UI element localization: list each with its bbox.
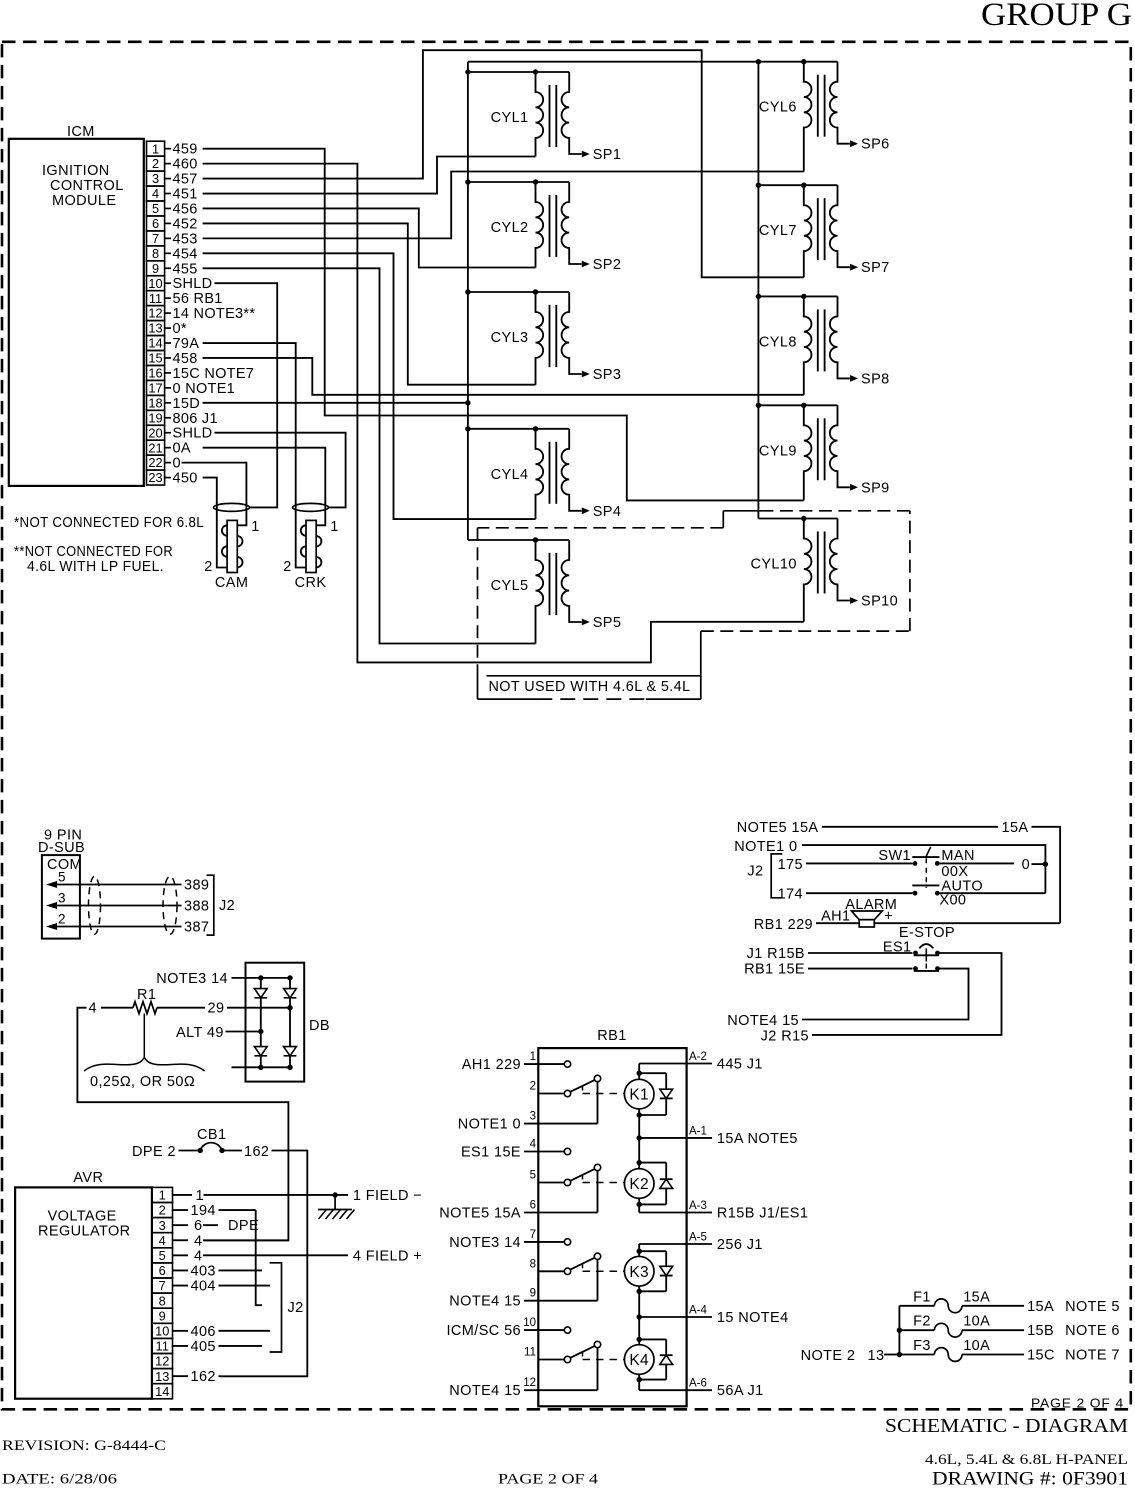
svg-text:J1 R15B: J1 R15B: [747, 946, 805, 962]
svg-text:14: 14: [155, 1384, 169, 1399]
svg-text:8: 8: [152, 246, 159, 261]
svg-text:12: 12: [523, 1377, 536, 1389]
AVR pin 1: [152, 1187, 173, 1202]
svg-text:3: 3: [159, 1218, 166, 1233]
svg-text:2: 2: [152, 156, 159, 171]
RB1 terminal A-3 net R15B J1/ES1: [639, 1200, 808, 1222]
wire 458 ICM pin15 to CYL8: [203, 358, 804, 395]
svg-text:1: 1: [159, 1188, 166, 1203]
svg-text:4: 4: [530, 1139, 537, 1151]
ignition coil CYL2: [491, 182, 622, 273]
svg-text:SP9: SP9: [861, 480, 890, 496]
sensor CAM: [204, 503, 259, 592]
wire 450 ICM pin23 to CAM 2: [203, 478, 217, 504]
svg-text:453: 453: [173, 231, 198, 247]
svg-text:NOTE5 15A: NOTE5 15A: [439, 1206, 521, 1222]
svg-text:SW1: SW1: [878, 848, 911, 864]
AVR pin 13: [152, 1369, 173, 1384]
svg-text:56 RB1: 56 RB1: [173, 291, 223, 307]
svg-text:4: 4: [194, 1233, 202, 1249]
svg-text:4: 4: [159, 1233, 166, 1248]
svg-text:RB1 15E: RB1 15E: [744, 962, 805, 978]
svg-text:162: 162: [191, 1369, 216, 1385]
RB1 pin 1: [462, 1051, 565, 1073]
wire 451 ICM pin4 to CYL1: [203, 157, 536, 194]
wire coil CYL6 top feed: [756, 59, 838, 64]
ICM pin 11: [147, 291, 223, 307]
svg-text:D-SUB: D-SUB: [38, 840, 85, 856]
svg-text:5: 5: [152, 201, 159, 216]
svg-text:SP5: SP5: [593, 615, 622, 631]
AVR pin 9: [152, 1308, 173, 1323]
svg-text:NOTE4 15: NOTE4 15: [727, 1013, 799, 1029]
svg-text:8: 8: [159, 1293, 166, 1308]
svg-text:256 J1: 256 J1: [717, 1237, 763, 1253]
svg-text:NOTE1 0: NOTE1 0: [734, 839, 797, 855]
ICM pin 15: [147, 351, 198, 367]
module AVR voltage regulator: [15, 1170, 152, 1399]
svg-text:J2: J2: [219, 898, 235, 914]
svg-text:79A: 79A: [173, 336, 200, 352]
svg-text:SCHEMATIC - DIAGRAM: SCHEMATIC - DIAGRAM: [885, 1415, 1128, 1437]
svg-text:1: 1: [530, 1051, 536, 1063]
wire SW1 MAN to net 0: [940, 857, 1046, 873]
diode DB at 260.8,993.2: [254, 989, 267, 998]
svg-text:17: 17: [148, 380, 162, 395]
svg-text:175: 175: [778, 857, 803, 873]
svg-text:ICM: ICM: [67, 124, 95, 140]
wire DB bottom row: [232, 1065, 293, 1070]
svg-text:1: 1: [196, 1188, 204, 1204]
svg-text:K4: K4: [629, 1352, 649, 1369]
svg-text:2: 2: [283, 559, 291, 575]
relay coil K4: [624, 1337, 654, 1383]
svg-text:NOTE5 15A: NOTE5 15A: [737, 820, 819, 836]
svg-text:20: 20: [148, 425, 162, 440]
svg-text:F3: F3: [913, 1338, 931, 1354]
contact terminal row 1330.1: [564, 1327, 570, 1333]
wire 15D power bus left bank: [467, 62, 469, 540]
svg-text:460: 460: [173, 157, 198, 173]
svg-text:162: 162: [244, 1144, 269, 1160]
svg-text:0,25Ω, OR 50Ω: 0,25Ω, OR 50Ω: [90, 1074, 195, 1090]
svg-text:NOTE4 15: NOTE4 15: [449, 1383, 521, 1399]
svg-text:459: 459: [173, 142, 198, 158]
svg-text:15A NOTE5: 15A NOTE5: [717, 1131, 798, 1147]
module ICM ignition control module: [9, 124, 144, 486]
ICM pin 3: [147, 171, 198, 187]
relay coil K1: [624, 1071, 654, 1118]
svg-text:8: 8: [530, 1258, 536, 1270]
wire AVR pin4 net 4: [173, 1233, 288, 1249]
svg-text:6: 6: [194, 1218, 202, 1234]
svg-text:RB1 229: RB1 229: [754, 917, 813, 933]
svg-text:16: 16: [148, 366, 162, 381]
wire CAM terminal 1 lead: [237, 503, 246, 526]
wire 455 ICM pin9 to CYL5: [203, 268, 536, 643]
svg-text:56A J1: 56A J1: [717, 1383, 764, 1399]
RB1 terminal A-2 net 445 J1: [639, 1051, 763, 1073]
wire 452 ICM pin6 to CYL3: [203, 223, 536, 384]
svg-text:A-2: A-2: [689, 1051, 707, 1063]
svg-text:388: 388: [184, 899, 209, 915]
contact terminal row 1151.5: [564, 1148, 570, 1154]
svg-text:9: 9: [159, 1308, 166, 1323]
wire coil CYL7 top feed: [756, 183, 838, 188]
svg-text:PAGE 2 OF 4: PAGE 2 OF 4: [498, 1472, 599, 1488]
ICM pin 2: [147, 156, 198, 172]
svg-text:5: 5: [58, 870, 66, 885]
wire RB1 229 to alarm: [754, 917, 1060, 933]
connector J2 bracket SW1: [747, 854, 782, 898]
svg-text:3: 3: [530, 1111, 536, 1123]
svg-text:NOTE1 0: NOTE1 0: [458, 1117, 521, 1133]
svg-text:12: 12: [155, 1354, 169, 1369]
svg-text:4.6L, 5.4L & 6.8L H-PANEL: 4.6L, 5.4L & 6.8L H-PANEL: [925, 1452, 1128, 1468]
AVR pin 12: [152, 1354, 173, 1369]
svg-text:CYL4: CYL4: [491, 467, 529, 483]
svg-text:AVR: AVR: [73, 1170, 103, 1186]
ignition coil CYL4: [491, 429, 622, 520]
svg-text:389: 389: [184, 878, 209, 894]
wire NOTE1 0 to SW1: [734, 839, 1048, 893]
ICM pin 23: [147, 470, 198, 486]
svg-text:DB: DB: [309, 1018, 330, 1034]
svg-text:4: 4: [152, 186, 159, 201]
wire NOTE5 15A to alarm: [737, 820, 1060, 923]
D-SUB pin 5 wire 389: [46, 870, 209, 894]
D-SUB pin 2 wire 387: [46, 912, 209, 936]
svg-text:10: 10: [148, 276, 162, 291]
svg-text:A-3: A-3: [689, 1200, 707, 1212]
svg-text:451: 451: [173, 187, 198, 203]
svg-text:15D: 15D: [173, 396, 201, 412]
AVR pin 7: [152, 1278, 173, 1293]
flyback diode K4: [639, 1339, 672, 1379]
contact terminal row 1064.1: [564, 1061, 570, 1067]
ICM pin 9: [147, 261, 198, 277]
svg-text:*NOT CONNECTED FOR 6.8L: *NOT CONNECTED FOR 6.8L: [14, 515, 204, 531]
ICM pin 4: [147, 186, 198, 202]
wire 0 ICM pin22 to CAM 1: [182, 463, 247, 504]
svg-text:6: 6: [530, 1200, 536, 1212]
mech link dashes: [583, 1175, 625, 1183]
wire 175 to SW1 MAN: [778, 857, 913, 873]
svg-text:DATE: 6/28/06: DATE: 6/28/06: [2, 1472, 118, 1488]
svg-text:SP3: SP3: [593, 367, 622, 383]
RB1 pin 8: [530, 1258, 565, 1271]
wire CAM terminal 2 lead: [217, 503, 227, 568]
svg-text:CYL9: CYL9: [759, 443, 797, 459]
svg-text:REVISION: G-8444-C: REVISION: G-8444-C: [2, 1438, 166, 1454]
contact terminal + blade row 1182.5: [564, 1164, 600, 1212]
RB1 pin 12: [449, 1377, 597, 1399]
svg-text:15A: 15A: [963, 1289, 990, 1305]
RB1 pin 2: [530, 1081, 565, 1094]
RB1 pin 9: [449, 1288, 597, 1310]
ignition coil CYL6: [759, 62, 890, 172]
svg-text:12: 12: [148, 306, 162, 321]
svg-text:NOTE 6: NOTE 6: [1065, 1323, 1120, 1339]
wire 0A ICM pin21 to CRK 1: [203, 448, 326, 504]
svg-text:CRK: CRK: [295, 575, 327, 591]
RB1 pin 5: [530, 1170, 565, 1183]
svg-text:NOTE3 14: NOTE3 14: [449, 1235, 521, 1251]
svg-text:2: 2: [159, 1203, 166, 1218]
svg-text:DPE: DPE: [228, 1218, 259, 1234]
diode bridge DB: [246, 963, 330, 1082]
svg-text:15C NOTE7: 15C NOTE7: [173, 366, 255, 382]
svg-text:NOTE3 14: NOTE3 14: [156, 971, 228, 987]
ignition coil CYL7: [759, 185, 890, 277]
AVR pin 3: [152, 1218, 173, 1233]
svg-text:A-4: A-4: [689, 1305, 708, 1317]
svg-text:15: 15: [148, 351, 162, 366]
svg-text:SP4: SP4: [593, 504, 622, 520]
wire RB1 15E through ES1 to NOTE4 15: [727, 962, 968, 1030]
switch E-STOP ES1: [883, 925, 955, 971]
diode DB at 290.0,1051.2: [284, 1047, 297, 1056]
svg-text:CAM: CAM: [215, 575, 248, 591]
fuse F1 15A: [899, 1289, 1119, 1315]
wire AVR pin11 net 405: [173, 1339, 263, 1355]
svg-text:A-5: A-5: [689, 1232, 707, 1244]
svg-text:11: 11: [524, 1347, 536, 1359]
svg-text:0: 0: [1022, 857, 1030, 873]
sensor CRK: [283, 503, 338, 592]
svg-text:REGULATOR: REGULATOR: [38, 1224, 131, 1240]
svg-text:NOTE 2: NOTE 2: [801, 1348, 856, 1364]
svg-text:R15B J1/ES1: R15B J1/ES1: [717, 1206, 808, 1222]
svg-text:15A: 15A: [1027, 1299, 1054, 1315]
svg-text:ICM/SC 56: ICM/SC 56: [446, 1323, 521, 1339]
wire 15D power bus right bank: [757, 62, 759, 519]
svg-text:14: 14: [148, 336, 162, 351]
svg-text:0: 0: [173, 456, 181, 472]
svg-text:11: 11: [149, 291, 162, 306]
fuse F2 10A: [899, 1314, 1119, 1340]
svg-text:10: 10: [523, 1317, 536, 1329]
svg-text:452: 452: [173, 216, 198, 232]
wire R1 right to DB: [157, 1005, 293, 1010]
ICM pin 10: [147, 276, 213, 292]
svg-text:MAN: MAN: [941, 848, 974, 864]
svg-text:+: +: [884, 909, 893, 925]
ICM pin 1: [147, 141, 198, 157]
wire SW1 AUTO to net 0: [940, 892, 1046, 894]
ICM pin 16: [147, 365, 255, 381]
svg-text:SP2: SP2: [593, 257, 622, 273]
wire AVR pin10 net 406: [173, 1324, 271, 1340]
note not connected LP fuel: [14, 544, 173, 575]
ICM pin 6: [147, 216, 198, 232]
svg-text:13: 13: [148, 321, 162, 336]
wire NOTE 2 13 fuse feed: [801, 1306, 903, 1364]
wire AVR pin2 net 194 to J2: [173, 1203, 263, 1305]
wire CRK terminal 2 lead: [296, 503, 306, 568]
svg-text:15 NOTE4: 15 NOTE4: [717, 1310, 789, 1326]
svg-text:PAGE 2 OF 4: PAGE 2 OF 4: [1031, 1396, 1124, 1411]
wire 459 ICM pin1 to CYL9: [203, 149, 804, 501]
wire relay rail K1 K2: [637, 1064, 642, 1213]
RB1 pin 7: [449, 1229, 564, 1251]
svg-text:1: 1: [152, 141, 159, 156]
svg-text:NOT USED WITH 4.6L & 5.4L: NOT USED WITH 4.6L & 5.4L: [489, 679, 691, 695]
RB1 pin 6: [439, 1200, 597, 1222]
mech link dashes: [583, 1352, 625, 1360]
wire SHLD ICM pin20 to CRK shield: [215, 433, 346, 508]
svg-text:R1: R1: [137, 987, 156, 1003]
svg-text:CYL2: CYL2: [491, 220, 529, 236]
svg-text:K3: K3: [629, 1264, 649, 1281]
svg-text:174: 174: [778, 887, 803, 903]
wire coil CYL5 top feed: [468, 537, 569, 542]
wire power bus crossover: [468, 61, 759, 63]
svg-text:4.6L WITH LP FUEL.: 4.6L WITH LP FUEL.: [27, 559, 164, 575]
svg-text:10: 10: [155, 1323, 169, 1338]
ICM pin 8: [147, 246, 198, 262]
wire coil CYL2 top feed: [465, 179, 569, 184]
svg-text:7: 7: [530, 1229, 536, 1241]
contact terminal row 1241.9: [564, 1239, 570, 1245]
wire AVR pin5 net 4 to FIELD plus: [173, 1248, 423, 1264]
AVR pin 6: [152, 1263, 173, 1278]
ground at FIELD minus: [318, 1195, 355, 1219]
RB1 terminal A-6 net 56A J1: [639, 1378, 763, 1400]
svg-text:SP6: SP6: [861, 137, 890, 153]
svg-text:458: 458: [173, 351, 198, 367]
svg-text:1: 1: [330, 519, 338, 535]
svg-text:11: 11: [156, 1339, 169, 1354]
module RB1 relay box: [538, 1028, 686, 1406]
alarm AH1 speaker: [821, 897, 897, 927]
svg-text:X00: X00: [939, 893, 966, 909]
ICM pin 20: [147, 425, 213, 441]
svg-text:14 NOTE3**: 14 NOTE3**: [173, 306, 256, 322]
wire relay rail K3 K4: [637, 1244, 642, 1390]
switch SW1 MAN AUTO: [878, 847, 983, 909]
svg-text:SP7: SP7: [861, 260, 890, 276]
relay coil K3: [624, 1249, 654, 1295]
svg-text:CYL6: CYL6: [759, 100, 797, 116]
svg-text:SP1: SP1: [593, 147, 622, 163]
svg-text:406: 406: [191, 1324, 216, 1340]
RB1 pin 3: [458, 1111, 598, 1133]
svg-text:CONTROL: CONTROL: [50, 178, 124, 194]
svg-text:4 FIELD +: 4 FIELD +: [353, 1248, 422, 1264]
cable twist symbol 2: [163, 876, 177, 934]
ICM pin 7: [147, 231, 198, 247]
diode DB at 260.8,1051.2: [254, 1047, 267, 1056]
svg-text:K1: K1: [629, 1087, 649, 1104]
svg-text:RB1: RB1: [597, 1028, 626, 1044]
wire AVR pin13 net 162 label: [173, 1369, 221, 1385]
svg-text:K2: K2: [629, 1176, 649, 1193]
wire 456 ICM pin5 to CYL2: [203, 208, 536, 267]
svg-text:CYL1: CYL1: [491, 110, 529, 126]
ICM pin 14: [147, 336, 200, 352]
connector J2 bracket: [207, 875, 236, 935]
svg-text:387: 387: [184, 920, 209, 936]
relay coil K2: [624, 1160, 654, 1207]
cable twist symbol 1: [89, 876, 101, 934]
connector J2 bracket AVR: [270, 1263, 304, 1352]
svg-text:19: 19: [148, 410, 162, 425]
svg-text:NOTE 5: NOTE 5: [1065, 1299, 1120, 1315]
wire J1 R15B through ES1 to J2 R15: [747, 946, 1002, 1045]
wire R1 left to AVR pin4: [101, 1007, 133, 1009]
svg-text:4: 4: [194, 1248, 202, 1264]
svg-text:2: 2: [58, 912, 66, 927]
svg-text:23: 23: [148, 470, 162, 485]
wire coil CYL1 top feed: [465, 69, 569, 74]
ICM pin 13: [147, 321, 187, 337]
svg-text:F2: F2: [913, 1314, 931, 1330]
fuse F3 10A: [899, 1338, 1119, 1364]
AVR pin 14: [152, 1384, 173, 1399]
svg-text:404: 404: [191, 1279, 216, 1295]
svg-text:ES1 15E: ES1 15E: [461, 1145, 521, 1161]
contact terminal + blade row 1093.5: [564, 1075, 600, 1123]
svg-text:2: 2: [204, 559, 212, 575]
svg-text:5: 5: [530, 1170, 536, 1182]
ICM pin 5: [147, 201, 198, 217]
svg-text:SP10: SP10: [861, 594, 898, 610]
ICM pin 18: [147, 395, 201, 411]
svg-text:29: 29: [208, 1001, 225, 1017]
svg-text:SP8: SP8: [861, 371, 890, 387]
svg-text:9: 9: [530, 1288, 536, 1300]
svg-text:21: 21: [148, 440, 162, 455]
svg-text:J2: J2: [747, 864, 763, 880]
svg-text:DRAWING #: 0F3901: DRAWING #: 0F3901: [932, 1469, 1128, 1490]
ICM pin 22: [147, 455, 181, 471]
AVR pin3 net 6 DPE: [173, 1218, 260, 1234]
wire SHLD ICM pin10 to CAM shield: [215, 283, 278, 507]
svg-text:GROUP G: GROUP G: [981, 0, 1132, 33]
circuit breaker CB1: [132, 1127, 269, 1160]
svg-text:A-6: A-6: [689, 1378, 707, 1390]
svg-text:0A: 0A: [173, 441, 191, 457]
svg-text:15C: 15C: [1027, 1348, 1055, 1364]
wire 174 to SW1 AUTO: [778, 887, 913, 903]
wire ALT 49 to DB: [176, 1025, 263, 1041]
flyback diode K1: [639, 1073, 672, 1115]
resistor R1: [133, 987, 157, 1014]
wire coil CYL10 top feed: [758, 516, 837, 521]
mech link dashes: [583, 1086, 625, 1094]
svg-text:450: 450: [173, 471, 198, 487]
svg-text:CYL10: CYL10: [750, 557, 796, 573]
AVR pin 4: [152, 1233, 173, 1248]
svg-text:NOTE 7: NOTE 7: [1065, 1348, 1120, 1364]
svg-text:454: 454: [173, 246, 198, 262]
RB1 terminal A-5 net 256 J1: [639, 1232, 763, 1254]
wire AVR pin6 net 403: [173, 1263, 263, 1279]
ignition coil CYL10: [750, 519, 898, 622]
svg-text:6: 6: [159, 1263, 166, 1278]
ICM pin 12: [147, 306, 256, 322]
svg-text:4: 4: [89, 1001, 97, 1017]
svg-text:13: 13: [155, 1369, 169, 1384]
svg-text:CYL5: CYL5: [491, 578, 529, 594]
wire coil CYL3 top feed: [465, 289, 569, 294]
svg-text:10A: 10A: [963, 1338, 990, 1354]
svg-text:445 J1: 445 J1: [717, 1057, 763, 1073]
svg-text:405: 405: [191, 1339, 216, 1355]
ignition coil CYL1: [491, 72, 622, 163]
svg-text:2: 2: [530, 1081, 536, 1093]
